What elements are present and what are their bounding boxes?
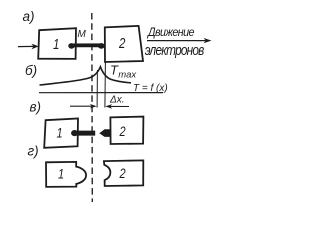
label 2 in box 2a bbox=[118, 35, 126, 52]
dash-dot contact plane line bbox=[91, 13, 94, 202]
svg-text:max: max bbox=[118, 69, 137, 80]
dimension arrow right bbox=[109, 105, 130, 107]
label 2 in box 2g bbox=[119, 166, 126, 181]
svg-text:1: 1 bbox=[53, 35, 59, 52]
extension line left (delta x) bbox=[96, 70, 98, 108]
box 2 stage a bbox=[105, 26, 143, 62]
electron flow arrow bbox=[147, 40, 207, 42]
svg-text:Движение: Движение bbox=[146, 27, 194, 40]
svg-text:б): б) bbox=[25, 63, 37, 78]
label 1 in box 1v bbox=[57, 125, 63, 140]
arrow into box 1 bbox=[18, 45, 35, 47]
svg-text:электронов: электронов bbox=[145, 42, 205, 59]
box 2 stage g with notch bbox=[104, 160, 143, 186]
svg-text:в): в) bbox=[30, 100, 42, 115]
svg-text:2: 2 bbox=[118, 35, 126, 52]
label 1 in box 1g bbox=[58, 166, 64, 181]
label 1 in box 1a bbox=[53, 35, 59, 52]
svg-text:2: 2 bbox=[119, 166, 126, 181]
box 2 stage v bbox=[110, 117, 143, 144]
svg-text:г): г) bbox=[28, 144, 39, 159]
label 2 in box 2v bbox=[119, 124, 126, 139]
svg-text:1: 1 bbox=[57, 125, 63, 140]
box 1 stage g with protrusion bbox=[46, 162, 86, 187]
text Dvizhenie bbox=[146, 27, 194, 40]
svg-text:T = f (x): T = f (x) bbox=[133, 83, 168, 94]
temperature curve T=f(x) bbox=[40, 67, 132, 85]
box 1 stage a bbox=[38, 28, 76, 59]
svg-text:2: 2 bbox=[119, 124, 126, 139]
svg-text:Δx.: Δx. bbox=[109, 95, 125, 106]
text elektronov bbox=[145, 42, 205, 59]
svg-text:М: М bbox=[78, 29, 87, 40]
svg-text:1: 1 bbox=[58, 166, 64, 181]
baseline axis bbox=[39, 92, 163, 94]
svg-text:а): а) bbox=[23, 9, 35, 24]
extension line right from box2 corner bbox=[104, 62, 107, 108]
molten bridge bar M stage a bbox=[70, 43, 103, 47]
box 1 stage v bbox=[44, 119, 78, 148]
stub arrow on box 2 stage v bbox=[99, 129, 110, 137]
broken bridge bar stage v bbox=[73, 131, 95, 136]
dimension arrow left bbox=[70, 105, 93, 107]
